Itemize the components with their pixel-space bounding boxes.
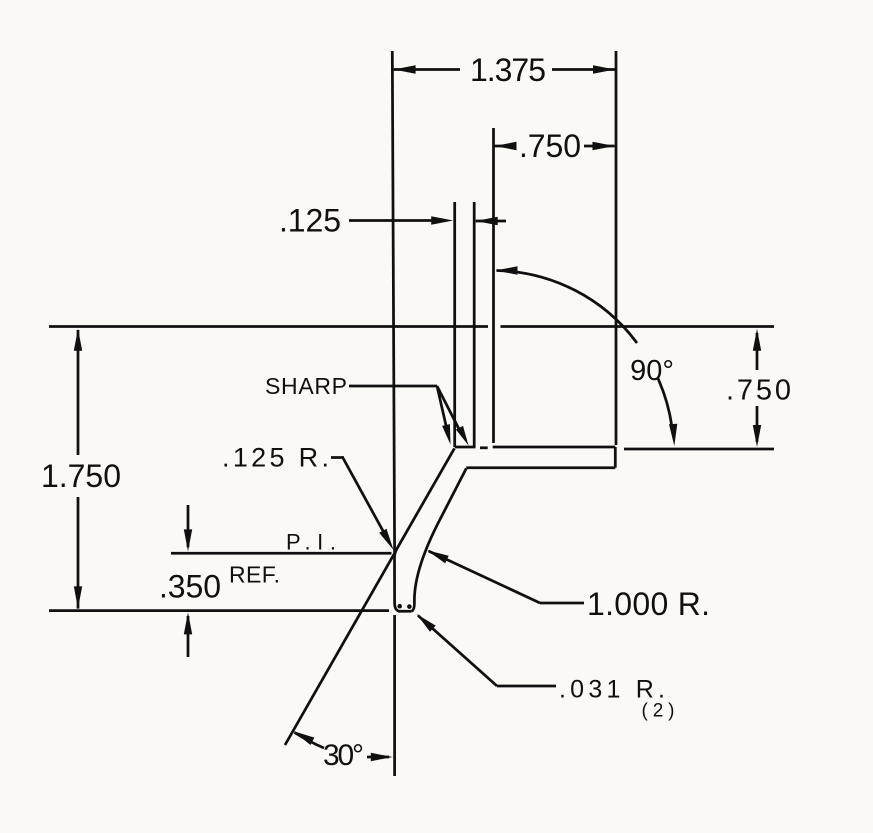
svg-text:.750: .750 <box>519 128 581 164</box>
part: arm top edge <box>455 446 476 449</box>
svg-text:30°: 30° <box>323 739 364 772</box>
svg-text:(2): (2) <box>642 701 675 722</box>
dim .750 top dimension line with arrows <box>495 145 517 148</box>
svg-text:90°: 90° <box>630 355 674 387</box>
radius center dot left (.031 R) <box>397 604 402 609</box>
top-of-arm extension line to the right <box>624 448 774 451</box>
part: vertical wall left edge <box>453 202 456 447</box>
svg-text:SHARP: SHARP <box>265 373 347 399</box>
dim 30 deg arrow to centerline <box>367 756 389 759</box>
bottom reference line (bottom of tip datum) <box>49 609 389 612</box>
dim 1.375 dimension line with arrows <box>394 68 460 71</box>
30 deg construction line through P.I. <box>285 553 395 745</box>
svg-text:.350: .350 <box>159 569 221 605</box>
.031 R. leader with arrow to tip radius <box>418 616 497 687</box>
part: vertical wall right edge <box>473 202 476 447</box>
part: arm bottom edge <box>466 466 615 469</box>
svg-text:.125 R.: .125 R. <box>222 443 329 473</box>
SHARP leader to two sharp corners <box>349 385 437 388</box>
svg-text:.125: .125 <box>279 203 341 239</box>
svg-text:1.375: 1.375 <box>470 52 546 88</box>
P.I. reference line <box>171 552 392 555</box>
svg-text:.031 R.: .031 R. <box>559 676 665 704</box>
.125 R. leader with arrow to P.I. point <box>331 456 344 459</box>
dim 1.750 dimension line with arrows <box>77 330 80 455</box>
svg-text:1.750: 1.750 <box>41 458 121 494</box>
svg-text:REF.: REF. <box>229 562 280 588</box>
top reference line (top of part, y=1.750 datum) <box>49 325 488 328</box>
part: arm right end cap <box>614 447 617 468</box>
dim .350 arrows <box>187 505 190 547</box>
dim 30 deg arc arrow to construction line <box>295 733 325 749</box>
dim .125 leader with arrows at wall <box>349 219 432 222</box>
dim .750 right dimension line with arrows <box>756 333 759 370</box>
centerline (vertical axis through P.I.) <box>392 51 394 553</box>
dim 1.375 right extension line (arm end extended up) <box>615 51 618 445</box>
part: tip bottom-right radius and 1.000 R web inner edge up to arm <box>412 468 467 611</box>
svg-text:1.000 R.: 1.000 R. <box>587 586 710 622</box>
radius center dot right (.031 R) <box>407 604 412 609</box>
dim 90 deg arc with arrows <box>497 271 638 344</box>
dim .750 top left extension line <box>492 128 495 443</box>
part: web outer edge, P.I. fillet and tip left/bottom edge <box>394 448 454 611</box>
1.000 R. leader with arrow to web inner curve <box>429 551 541 603</box>
